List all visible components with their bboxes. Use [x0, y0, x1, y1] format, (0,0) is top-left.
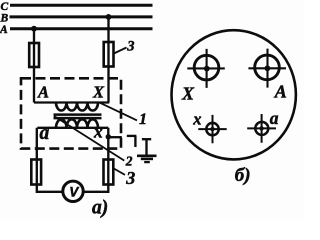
- bus line C: [10, 4, 153, 7]
- svg-text:а: а: [40, 123, 50, 144]
- terminal A: circle: [255, 55, 280, 80]
- svg-text:V: V: [69, 185, 79, 200]
- primary winding W1: humps: [56, 103, 98, 111]
- svg-text:а): а): [92, 198, 108, 219]
- terminal A-X bushing X: crosshair: [187, 49, 225, 88]
- leader line to label 3 (top fuse): [114, 48, 127, 54]
- svg-text:1: 1: [139, 111, 147, 128]
- terminal A: crosshair: [248, 49, 286, 88]
- terminal x: crosshair: [198, 115, 226, 143]
- node: tap on phase B: [106, 14, 112, 20]
- wire: secondary left leg down to voltmeter: [37, 128, 63, 192]
- terminal X: circle: [194, 55, 219, 80]
- svg-text:3: 3: [125, 168, 135, 188]
- wire: secondary right leg down to voltmeter: [84, 128, 108, 192]
- terminal a: center dot: [259, 126, 263, 130]
- wire: ground lead cap: [142, 138, 151, 140]
- terminal x: center dot: [210, 127, 214, 131]
- fuse F1 (top left): [29, 43, 39, 67]
- terminal plate outline (panel b): [172, 30, 296, 159]
- fuse F2 (top right): [104, 42, 114, 67]
- primary winding W1: baseline: [34, 101, 109, 103]
- dashed enclosure of transformer: [21, 78, 121, 148]
- terminal x: circle: [206, 123, 218, 135]
- svg-text:А: А: [37, 82, 49, 101]
- svg-text:А: А: [274, 82, 287, 102]
- voltmeter PV: body: [63, 181, 83, 201]
- leader line to label 1 (transformer): [100, 103, 137, 121]
- svg-text:х: х: [93, 122, 103, 142]
- node: x terminal junction: [106, 134, 111, 139]
- wire: left drop from phase A to primary: [33, 29, 35, 103]
- wire: right drop from phase B to primary: [107, 17, 109, 103]
- transformer core line 2: [54, 117, 102, 120]
- svg-text:А: А: [0, 24, 8, 36]
- terminal A: center dot: [265, 65, 271, 71]
- leader line to label 3 (bottom fuse): [114, 169, 125, 175]
- svg-text:б): б): [235, 165, 251, 186]
- svg-text:х: х: [192, 109, 201, 128]
- wire: ground lead vertical: [145, 139, 147, 155]
- wire: ground link dash: [127, 135, 137, 137]
- wire: ground link down-stroke: [134, 136, 136, 147]
- ground bar 2: [141, 158, 153, 161]
- secondary winding W2: baseline: [37, 127, 108, 129]
- svg-text:В: В: [0, 12, 9, 24]
- terminal a: crosshair: [247, 114, 276, 143]
- ground bar 3: [144, 161, 150, 163]
- secondary winding W2: humps: [56, 119, 98, 128]
- bus line A: [10, 27, 153, 30]
- svg-text:С: С: [1, 1, 9, 13]
- svg-text:Х: Х: [181, 84, 195, 104]
- node: tap on phase A: [31, 26, 37, 32]
- ground bar 1: [137, 154, 157, 157]
- bus line B: [10, 15, 153, 18]
- fuse F4 (bottom right): [104, 160, 114, 185]
- fuse F3 (bottom left): [31, 160, 41, 185]
- svg-text:2: 2: [125, 153, 133, 168]
- svg-text:3: 3: [126, 39, 134, 55]
- terminal a: circle: [255, 122, 268, 135]
- terminal X: center dot: [204, 66, 210, 72]
- transformer core line 1: [54, 113, 102, 116]
- svg-text:Х: Х: [92, 83, 105, 102]
- svg-text:а: а: [270, 108, 279, 128]
- wire: from x junction toward ground (segment 1): [110, 136, 122, 138]
- leader line to label 2 (secondary winding): [54, 116, 124, 161]
